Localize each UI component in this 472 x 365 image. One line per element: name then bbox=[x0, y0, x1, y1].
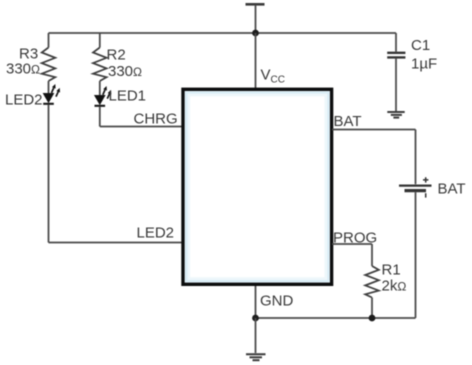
svg-text:LED1: LED1 bbox=[109, 88, 147, 105]
svg-text:BAT: BAT bbox=[438, 181, 466, 198]
wire: power stem down to top rail bbox=[255, 5, 257, 33]
wire: down to ground symbol bbox=[255, 318, 257, 353]
junction dot: R1 bottom node bbox=[369, 315, 376, 322]
svg-text:C1: C1 bbox=[411, 37, 430, 54]
wire: R3 to LED2 anode bbox=[48, 81, 50, 94]
svg-text:LED2: LED2 bbox=[137, 225, 175, 242]
svg-text:R1: R1 bbox=[382, 262, 401, 279]
wire: LED2 pin horizontal into IC bbox=[49, 242, 183, 244]
LED D-LED2 symbol bbox=[43, 84, 60, 104]
wire: top rail bbox=[49, 32, 397, 34]
resistor R3 bbox=[42, 48, 56, 82]
wire: GND stem from IC bbox=[255, 286, 257, 318]
ground (C1) bbox=[387, 112, 404, 118]
wire: battery negative down to bottom rail bbox=[415, 192, 417, 318]
svg-text:330Ω: 330Ω bbox=[6, 61, 40, 78]
ground (GND rail) bbox=[246, 354, 266, 360]
resistor R1 bbox=[365, 266, 379, 298]
junction dot: GND node bbox=[252, 315, 259, 322]
wire: R3 top lead bbox=[48, 33, 50, 48]
wire: BAT pin horizontal bbox=[332, 129, 416, 131]
wire: R2 top lead bbox=[99, 33, 101, 48]
op-amp/IC U1 body bbox=[183, 89, 332, 284]
wire: R1 bottom lead bbox=[371, 298, 373, 319]
svg-text:2kΩ: 2kΩ bbox=[382, 278, 407, 295]
wire: R2 to LED1 anode bbox=[99, 81, 101, 96]
resistor R2 bbox=[93, 48, 107, 82]
svg-text:BAT: BAT bbox=[334, 113, 362, 130]
wire: bottom rail bbox=[256, 317, 416, 319]
svg-text:CHRG: CHRG bbox=[134, 111, 178, 128]
svg-text:330Ω: 330Ω bbox=[108, 63, 142, 80]
svg-text:1µF: 1µF bbox=[411, 56, 437, 73]
wire: BAT down to battery bbox=[415, 130, 417, 185]
svg-text:R2: R2 bbox=[107, 47, 126, 64]
svg-text:PROG: PROG bbox=[333, 230, 377, 247]
wire: CHRG pin horizontal into IC bbox=[100, 126, 182, 128]
wire: VCC stem into IC bbox=[255, 33, 257, 89]
capacitor C1 bbox=[387, 33, 405, 111]
junction dot: top rail / VCC bbox=[252, 30, 259, 37]
wire: LED1 cathode down bbox=[99, 107, 101, 127]
wire: LED2 cathode down left rail bbox=[48, 105, 50, 243]
svg-text:LED2: LED2 bbox=[5, 92, 43, 109]
LED D-LED1 symbol bbox=[95, 86, 112, 106]
wire: PROG pin horizontal bbox=[332, 243, 372, 245]
svg-text:VCC: VCC bbox=[261, 67, 285, 86]
power supply bar terminal bbox=[246, 3, 265, 6]
wire: PROG down to R1 bbox=[371, 244, 373, 266]
battery BAT bbox=[399, 177, 432, 197]
svg-text:GND: GND bbox=[260, 293, 294, 310]
